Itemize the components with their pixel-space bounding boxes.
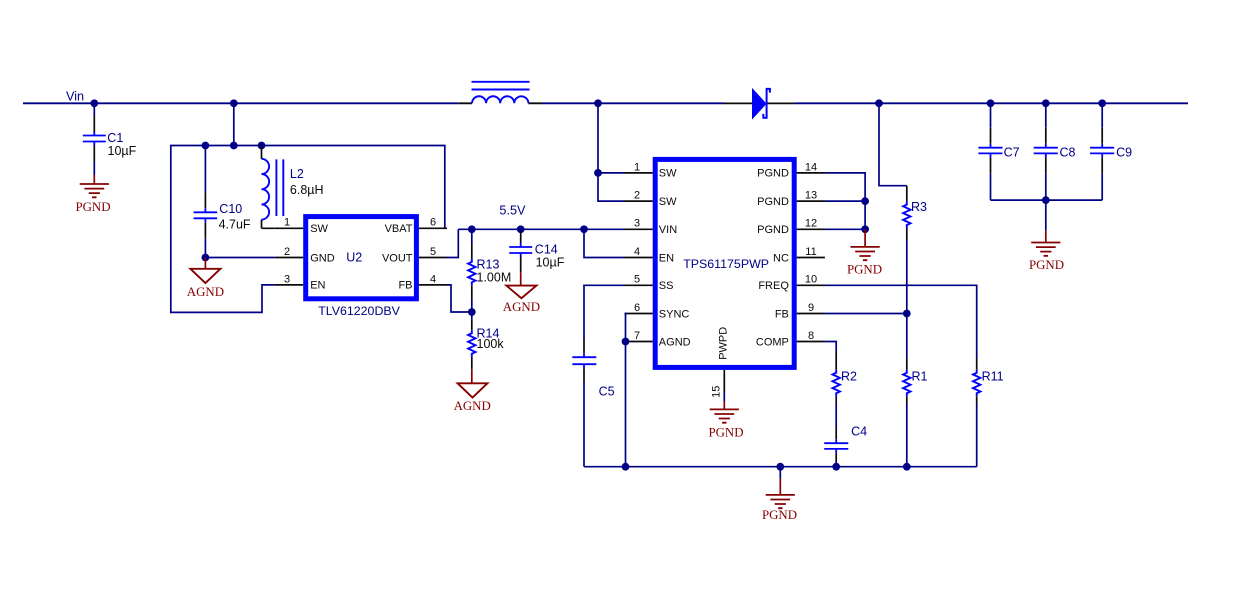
svg-text:3: 3 (634, 218, 640, 230)
svg-text:C5: C5 (599, 385, 615, 399)
diode D (schottky, unlabeled) (752, 88, 770, 120)
svg-text:C8: C8 (1060, 145, 1076, 159)
svg-text:FREQ: FREQ (758, 280, 789, 292)
wire: SS to C5 (584, 285, 625, 339)
svg-text:SW: SW (659, 196, 677, 208)
capacitor C5 (583, 339, 585, 382)
svg-text:PGND: PGND (708, 425, 743, 439)
svg-text:R2: R2 (841, 370, 857, 384)
node: pin12 junction (861, 225, 869, 233)
capacitor C14 (520, 229, 522, 231)
svg-text:C7: C7 (1004, 145, 1020, 159)
TPS pin names right (756, 168, 789, 349)
wire: U2 FB to divider (447, 285, 472, 312)
svg-text:EN: EN (310, 280, 325, 292)
U2 pin stubs (275, 228, 447, 285)
wire: bottom bus (584, 466, 977, 468)
node: pin13 junction (861, 197, 869, 205)
svg-text:PGND: PGND (762, 508, 797, 522)
svg-text:AGND: AGND (187, 285, 224, 299)
wire: PGND pins 14/13/12 chain (825, 173, 865, 229)
svg-text:VBAT: VBAT (385, 223, 413, 235)
wire: VOUT to 5.5V rail (447, 229, 458, 257)
svg-text:6: 6 (634, 302, 640, 314)
svg-text:8: 8 (808, 330, 814, 342)
svg-text:10: 10 (805, 274, 817, 286)
wire: SYNC/AGND vertical (625, 314, 626, 467)
ground AGND (under R14) (471, 369, 473, 383)
svg-text:AGND: AGND (503, 300, 540, 314)
node: junction dots on Vin bus (90, 99, 1106, 107)
svg-text:R13: R13 (477, 258, 500, 272)
inductor L2 (262, 159, 284, 220)
wire: rail to PGND (1045, 200, 1047, 231)
wire: COMP pin8 to R2 (825, 342, 836, 352)
wire: FB pin9 (825, 313, 907, 315)
ground AGND (under C14) (520, 272, 522, 285)
resistor R1 (906, 314, 908, 359)
svg-text:PGND: PGND (1029, 258, 1064, 272)
svg-text:R3: R3 (911, 200, 927, 214)
svg-text:11: 11 (805, 246, 816, 258)
svg-text:1.00M: 1.00M (477, 271, 512, 285)
svg-text:6.8µH: 6.8µH (290, 183, 324, 197)
ground PGND (under C7/C8/C9) (1031, 243, 1060, 256)
node: dots on sub-circuit rail (202, 142, 266, 150)
svg-text:PGND: PGND (847, 263, 882, 277)
svg-text:R1: R1 (912, 370, 928, 384)
svg-text:GND: GND (310, 252, 335, 264)
ground PGND (under C1) (80, 184, 109, 197)
resistor R3 (906, 186, 908, 202)
svg-text:U2: U2 (346, 250, 362, 264)
svg-text:2: 2 (634, 190, 640, 202)
svg-text:3: 3 (284, 273, 290, 285)
inductor (top bus, unlabeled) (472, 82, 530, 104)
svg-text:15: 15 (710, 386, 722, 398)
svg-text:PGND: PGND (757, 196, 789, 208)
wire: C7/C8/C9 lower rail (991, 199, 1103, 201)
svg-text:SS: SS (659, 280, 674, 292)
wire: FREQ pin10 to R11 (825, 285, 977, 358)
inductor L2 pins (black) (262, 146, 275, 229)
capacitor C10 (194, 208, 218, 222)
wire: C4 to bottom bus (835, 461, 837, 467)
node: dots on 5.5V rail (468, 225, 588, 233)
svg-text:C9: C9 (1116, 145, 1132, 159)
svg-text:5: 5 (634, 274, 640, 286)
svg-text:FB: FB (775, 308, 789, 320)
svg-text:C1: C1 (107, 131, 123, 145)
capacitor C1 (83, 132, 106, 146)
op-amp U1 TPS61175PWP box (655, 159, 794, 367)
svg-text:FB: FB (398, 280, 412, 292)
ground PGND (pins 12-14) (864, 229, 866, 247)
resistor R13 (471, 229, 473, 244)
svg-text:VIN: VIN (659, 224, 677, 236)
capacitor C8 branch (1045, 103, 1047, 127)
node: R13/R14 junction (468, 308, 476, 316)
svg-text:100k: 100k (477, 337, 505, 351)
svg-text:1: 1 (284, 217, 290, 229)
svg-text:SYNC: SYNC (659, 308, 690, 320)
svg-text:10µF: 10µF (536, 256, 565, 270)
node: C10/GND junction (202, 254, 210, 262)
svg-text:COMP: COMP (756, 336, 789, 348)
svg-text:R11: R11 (982, 370, 1004, 384)
U2 pin names (310, 223, 413, 292)
svg-text:4: 4 (430, 273, 436, 285)
node: SW pin1 junction (594, 169, 602, 177)
svg-text:13: 13 (805, 190, 817, 202)
svg-text:PWPD: PWPD (718, 327, 730, 360)
svg-text:12: 12 (805, 218, 817, 230)
svg-text:5.5V: 5.5V (499, 203, 526, 217)
diode pin wire (black) (724, 102, 794, 104)
svg-text:SW: SW (659, 168, 677, 180)
TPS pin names left (659, 168, 691, 349)
svg-text:PGND: PGND (75, 200, 110, 214)
wire: main Vin bus (23, 102, 1188, 104)
TPS pin numbers right (805, 161, 817, 342)
TPS pin stubs (625, 173, 825, 392)
node: FB junction (903, 310, 911, 318)
svg-text:10µF: 10µF (108, 144, 137, 158)
svg-text:AGND: AGND (659, 336, 691, 348)
svg-text:6: 6 (430, 217, 436, 229)
svg-text:4.7uF: 4.7uF (219, 217, 251, 231)
resistor R2 (835, 351, 837, 403)
node: AGND pin7 junction (622, 338, 630, 346)
node: lower rail junction (1042, 196, 1050, 204)
ground PGND (bottom bus) (779, 467, 781, 478)
svg-text:Vin: Vin (66, 89, 84, 103)
wire: C10 branch (204, 146, 206, 193)
wire: black pin stubs of top-bus inductor (459, 102, 542, 104)
svg-text:PGND: PGND (757, 224, 789, 236)
node: dots on bottom bus (622, 463, 911, 471)
wire: C5 to bottom bus (583, 382, 585, 467)
svg-text:7: 7 (634, 330, 640, 342)
svg-text:SW: SW (310, 223, 328, 235)
svg-text:9: 9 (808, 302, 814, 314)
wire: sub-circuit top rail / left / bottom loop (171, 146, 445, 313)
svg-text:4: 4 (634, 246, 640, 258)
svg-text:EN: EN (659, 252, 674, 264)
wire: drop from bus to sub-circuit rail (233, 103, 235, 145)
svg-text:2: 2 (284, 246, 290, 258)
svg-text:C10: C10 (219, 202, 242, 216)
resistor R14 (471, 312, 473, 319)
wire: 5.5V rail (458, 228, 624, 230)
svg-text:NC: NC (773, 252, 789, 264)
capacitor C7 branch (990, 103, 992, 127)
svg-text:AGND: AGND (454, 399, 491, 413)
svg-text:1: 1 (634, 161, 640, 173)
wire: R3 branch from bus (879, 103, 907, 185)
resistor R11 (976, 358, 978, 403)
capacitor C4 (835, 427, 837, 461)
ground PGND (under pin 15) (723, 392, 725, 401)
ground AGND (under C10) (204, 258, 206, 269)
wire: EN branch from 5.5V rail (584, 229, 625, 257)
svg-text:PGND: PGND (757, 168, 789, 180)
svg-text:TPS61175PWP: TPS61175PWP (683, 257, 769, 271)
svg-text:VOUT: VOUT (382, 252, 413, 264)
svg-text:TLV61220DBV: TLV61220DBV (318, 304, 400, 318)
U2 pin numbers (284, 217, 436, 286)
svg-text:C4: C4 (851, 425, 867, 439)
capacitor C9 branch (1101, 103, 1103, 127)
wire: bus drop to TPS SW pins (598, 103, 625, 201)
wire: R2 to C4 (835, 403, 837, 427)
TPS pin numbers left (634, 161, 640, 342)
svg-text:14: 14 (805, 161, 817, 173)
wire: R3 to FB node (906, 240, 908, 314)
op-amp U2 TLV61220DBV box (306, 217, 417, 299)
svg-text:L2: L2 (290, 167, 304, 181)
svg-text:C14: C14 (535, 242, 558, 256)
wire: C1 branch vertical (93, 103, 95, 115)
svg-text:5: 5 (430, 246, 436, 258)
